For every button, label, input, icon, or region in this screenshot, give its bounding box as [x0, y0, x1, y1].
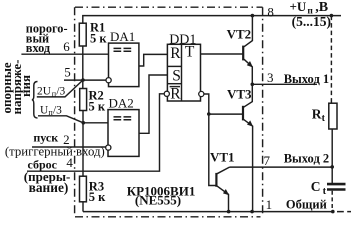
svg-text:(5...15): (5...15) — [292, 14, 331, 29]
external branch: Rt / Ct chain — [330, 16, 332, 103]
resistor Rt — [329, 103, 337, 129]
wire: ground rail pin 1 — [83, 211, 333, 213]
svg-text:R: R — [170, 85, 181, 102]
svg-text:2U: 2U — [37, 86, 51, 98]
svg-text:5 к: 5 к — [89, 190, 106, 204]
svg-text:t: t — [323, 186, 327, 197]
svg-text:1: 1 — [266, 197, 273, 212]
svg-text:U: U — [40, 104, 48, 116]
wire: pin 2 trigger input — [32, 146, 106, 148]
node: ground x VT1 emitter — [227, 210, 231, 214]
wire: R3 to ground rail — [82, 202, 84, 212]
wire: +Up power rail pin 8 — [83, 16, 341, 24]
svg-text:вход: вход — [26, 41, 51, 55]
svg-text:R: R — [170, 45, 181, 62]
svg-text:,В: ,В — [315, 0, 328, 15]
brace for reference voltages — [32, 82, 38, 119]
DD1 inverting R input circle — [164, 91, 169, 96]
resistor R1 — [79, 23, 86, 46]
wire: Up/3 node to DA2 top input — [83, 122, 108, 124]
svg-text:DA2: DA2 — [109, 95, 134, 110]
svg-text:R: R — [312, 106, 322, 121]
svg-text:Выход 1: Выход 1 — [284, 72, 329, 86]
svg-text:T: T — [185, 44, 195, 61]
node: ground x VT3 emitter — [250, 210, 254, 214]
svg-text:8: 8 — [267, 5, 274, 20]
wire: pin 6 threshold input — [21, 53, 108, 55]
svg-text:5 к: 5 к — [89, 99, 106, 113]
wire: divider R2-R3 — [82, 111, 84, 177]
node: Up/3 junction to DA2 input — [82, 121, 86, 125]
svg-text:VT2: VT2 — [227, 26, 252, 41]
resistor R2 — [80, 89, 87, 111]
svg-text:пуск: пуск — [33, 131, 58, 145]
wire: divider R1-R2 — [82, 46, 84, 89]
svg-text:вание): вание) — [29, 180, 69, 195]
svg-text:5: 5 — [64, 64, 71, 79]
node: ground x Ct branch — [331, 210, 335, 214]
svg-text:+U: +U — [290, 0, 307, 14]
node: base line split VT3/VT1 — [207, 112, 211, 116]
svg-text:VT1: VT1 — [210, 149, 235, 164]
svg-text:/3: /3 — [53, 104, 62, 116]
wire: DA2 output to DD1 S input — [139, 75, 168, 133]
svg-text:(NE555): (NE555) — [135, 193, 181, 208]
wire: DD1 T output to VT2 base — [201, 53, 243, 55]
svg-text:Выход 2: Выход 2 — [284, 151, 329, 165]
svg-text:7: 7 — [264, 153, 271, 168]
svg-text:6: 6 — [63, 39, 70, 54]
DD1 inverted output circle — [199, 91, 204, 96]
wire: DD1 inverted output to VT3/VT1 bases — [204, 94, 243, 114]
svg-text:ния: ния — [18, 75, 33, 97]
label: reference voltages (rotated) — [0, 60, 33, 115]
svg-text:VT3: VT3 — [227, 87, 252, 102]
svg-text:(триггерный вход): (триггерный вход) — [5, 144, 105, 158]
wire: pin 7 line from VT1 collector — [230, 166, 333, 168]
resistor R3 — [80, 176, 87, 202]
svg-text:/3: /3 — [56, 86, 65, 98]
IC boundary dash-dot frame — [75, 7, 263, 217]
svg-text:Общий: Общий — [286, 198, 327, 212]
svg-text:S: S — [172, 67, 181, 84]
wire: pin 5 control stub — [64, 79, 106, 81]
node: rail to VT2 collector — [251, 14, 255, 18]
svg-text:С: С — [311, 179, 321, 194]
DA2 inverting input circle — [106, 145, 111, 150]
svg-text:DA1: DA1 — [110, 29, 135, 44]
svg-text:5 к: 5 к — [90, 31, 107, 45]
node: 2Up/3 junction on pin5 line — [81, 78, 85, 82]
node: rail to external Rt branch — [330, 14, 334, 18]
wire: pin 4 reset input — [27, 94, 164, 171]
node: pin7 x Rt/Ct — [330, 165, 334, 169]
node: pin3 output junction — [251, 83, 255, 87]
DA1 inverting input circle — [106, 78, 111, 83]
wire: DA1 output to DD1 R input — [139, 54, 168, 66]
svg-text:3: 3 — [267, 70, 274, 85]
wire: pin 3 output line — [252, 83, 317, 85]
